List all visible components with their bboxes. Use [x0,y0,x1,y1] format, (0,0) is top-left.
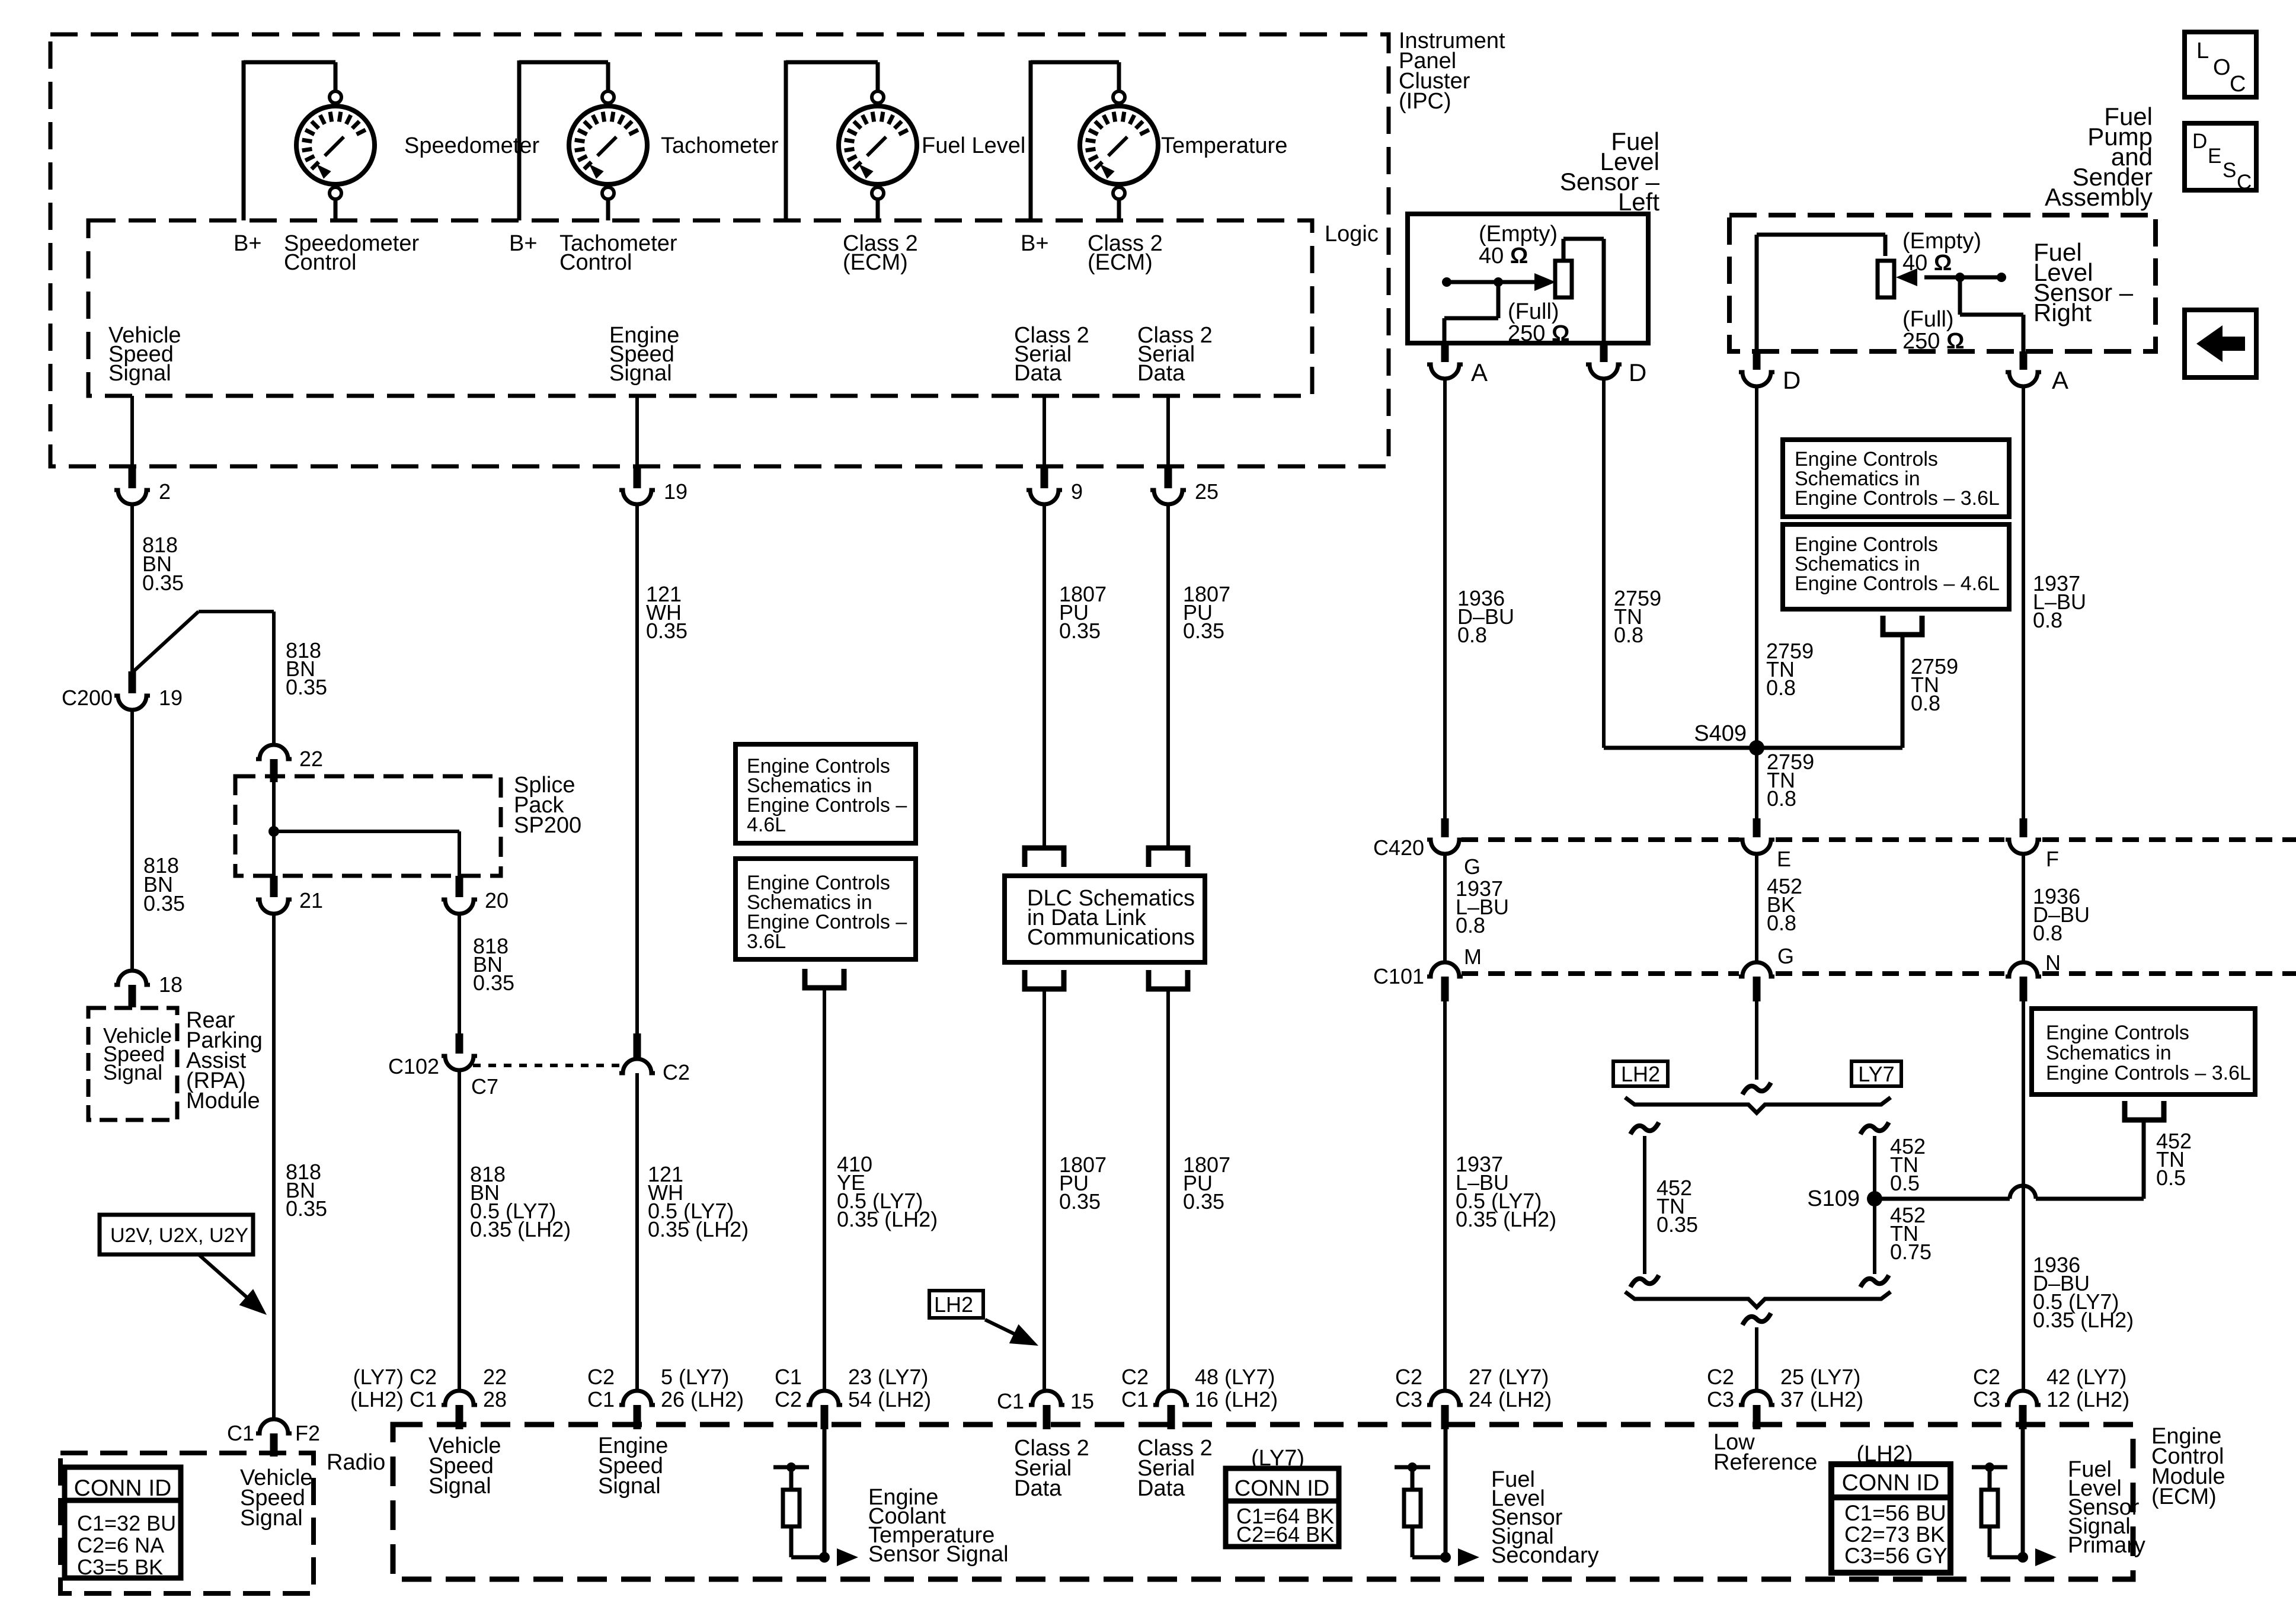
svg-text:Control: Control [284,250,357,275]
svg-text:C7: C7 [471,1074,498,1099]
svg-text:18: 18 [159,972,183,997]
svg-text:15: 15 [1070,1389,1094,1413]
svg-text:C: C [2230,72,2246,97]
svg-text:C2=73 BK: C2=73 BK [1844,1522,1945,1547]
svg-text:3.6L: 3.6L [747,930,786,953]
svg-text:40 Ω: 40 Ω [1479,244,1528,268]
svg-text:C2: C2 [663,1060,690,1084]
svg-text:0.35: 0.35 [1059,619,1101,643]
svg-text:C2=64 BK: C2=64 BK [1236,1522,1334,1547]
svg-text:0.35: 0.35 [286,675,327,699]
svg-text:D: D [2192,130,2207,153]
svg-text:24 (LH2): 24 (LH2) [1469,1387,1552,1411]
svg-text:L: L [2196,39,2209,63]
svg-text:Control: Control [559,250,632,275]
svg-text:0.35: 0.35 [1183,1189,1224,1214]
svg-text:LH2: LH2 [1621,1062,1660,1086]
svg-text:Tachometer: Tachometer [661,133,779,158]
svg-text:CONN ID: CONN ID [1235,1476,1329,1501]
svg-text:Engine Controls – 3.6L: Engine Controls – 3.6L [1795,487,2000,510]
svg-text:37 (LH2): 37 (LH2) [1780,1387,1863,1411]
svg-text:Data: Data [1137,1476,1185,1501]
svg-text:19: 19 [159,686,183,710]
svg-text:0.35: 0.35 [646,619,687,643]
svg-text:27 (LY7): 27 (LY7) [1469,1365,1549,1389]
svg-text:Communications: Communications [1027,925,1195,950]
svg-text:A: A [2052,366,2068,394]
svg-text:C2: C2 [1395,1365,1422,1389]
svg-text:0.35: 0.35 [143,891,185,916]
svg-text:25: 25 [1195,479,1219,504]
svg-text:0.8: 0.8 [1767,911,1796,935]
svg-text:C420: C420 [1373,836,1424,860]
svg-text:Right: Right [2033,299,2092,327]
svg-text:C200: C200 [62,686,113,710]
svg-text:C3=56 GY: C3=56 GY [1844,1544,1948,1568]
svg-text:Engine Controls – 3.6L: Engine Controls – 3.6L [2046,1062,2251,1084]
svg-text:(LY7) C2: (LY7) C2 [353,1365,437,1389]
svg-text:G: G [1464,854,1480,879]
svg-text:23 (LY7): 23 (LY7) [848,1365,928,1389]
svg-text:Sensor Signal: Sensor Signal [868,1542,1009,1567]
svg-text:5 (LY7): 5 (LY7) [661,1365,729,1389]
svg-text:Signal: Signal [428,1474,491,1499]
svg-text:0.35 (LH2): 0.35 (LH2) [1456,1207,1556,1231]
svg-text:G: G [1777,944,1794,968]
svg-text:C2: C2 [1707,1365,1734,1389]
svg-text:C1: C1 [227,1421,254,1445]
svg-text:C1=56 BU: C1=56 BU [1844,1501,1946,1525]
svg-text:16 (LH2): 16 (LH2) [1195,1387,1278,1411]
svg-text:D: D [1783,366,1801,394]
svg-text:2: 2 [159,479,171,504]
svg-text:Assembly: Assembly [2045,183,2153,211]
svg-text:C1: C1 [997,1389,1024,1413]
svg-text:0.5: 0.5 [1890,1171,1920,1195]
svg-text:0.8: 0.8 [2033,921,2062,945]
svg-text:0.8: 0.8 [1766,676,1796,700]
svg-text:26 (LH2): 26 (LH2) [661,1387,744,1411]
svg-text:0.5: 0.5 [2156,1166,2186,1190]
svg-text:0.35: 0.35 [1059,1189,1101,1214]
svg-text:D: D [1629,359,1646,386]
svg-text:Signal: Signal [240,1506,303,1531]
svg-text:F2: F2 [295,1421,320,1445]
svg-text:0.8: 0.8 [1456,913,1485,937]
svg-text:C1: C1 [587,1387,615,1411]
svg-text:22: 22 [299,747,323,771]
svg-text:Data: Data [1014,1476,1062,1501]
svg-text:N: N [2045,950,2061,975]
svg-text:Radio: Radio [327,1450,385,1475]
svg-text:Logic: Logic [1325,222,1379,247]
svg-text:42 (LY7): 42 (LY7) [2046,1365,2126,1389]
svg-text:25 (LY7): 25 (LY7) [1780,1365,1860,1389]
svg-text:Temperature: Temperature [1161,133,1287,158]
svg-text:0.35 (LH2): 0.35 (LH2) [648,1217,749,1241]
svg-text:(Empty): (Empty) [1479,222,1558,247]
svg-text:19: 19 [664,479,687,504]
svg-text:C3: C3 [1973,1387,2000,1411]
svg-text:C3=5 BK: C3=5 BK [77,1555,163,1579]
svg-text:C2: C2 [775,1387,802,1411]
svg-text:LY7: LY7 [1858,1062,1894,1086]
svg-text:C1: C1 [1121,1387,1149,1411]
svg-text:54 (LH2): 54 (LH2) [848,1387,931,1411]
svg-text:Left: Left [1618,188,1659,216]
svg-text:O: O [2213,55,2231,80]
svg-text:A: A [1471,359,1488,386]
svg-text:(ECM): (ECM) [2151,1484,2217,1509]
svg-text:LH2: LH2 [934,1292,973,1317]
svg-text:9: 9 [1071,479,1083,504]
svg-text:C3: C3 [1707,1387,1734,1411]
svg-text:F: F [2046,847,2059,871]
svg-text:250 Ω: 250 Ω [1508,321,1569,346]
svg-text:12 (LH2): 12 (LH2) [2046,1387,2129,1411]
svg-text:C101: C101 [1373,964,1424,988]
svg-text:Secondary: Secondary [1491,1543,1599,1568]
svg-text:CONN ID: CONN ID [1842,1470,1940,1496]
svg-text:Signal: Signal [103,1060,162,1084]
svg-text:Schematics in: Schematics in [2046,1042,2172,1064]
svg-text:(ECM): (ECM) [843,250,908,275]
svg-text:(Full): (Full) [1508,299,1559,324]
svg-text:0.35: 0.35 [1183,619,1224,643]
svg-text:Signal: Signal [598,1474,661,1499]
svg-text:SP200: SP200 [514,813,581,838]
svg-text:S109: S109 [1807,1186,1860,1211]
svg-text:0.35 (LH2): 0.35 (LH2) [470,1217,571,1241]
svg-text:0.8: 0.8 [1457,623,1487,647]
svg-text:0.35 (LH2): 0.35 (LH2) [2033,1308,2134,1332]
svg-text:0.35 (LH2): 0.35 (LH2) [837,1207,938,1231]
svg-text:4.6L: 4.6L [747,814,786,836]
svg-text:C1: C1 [775,1365,802,1389]
svg-text:C2: C2 [1121,1365,1149,1389]
svg-text:0.35: 0.35 [473,971,514,995]
svg-text:B+: B+ [509,231,538,256]
svg-text:U2V, U2X, U2Y: U2V, U2X, U2Y [110,1224,248,1247]
svg-text:(Full): (Full) [1902,307,1954,332]
svg-text:C1=32 BU: C1=32 BU [77,1511,176,1535]
svg-text:Data: Data [1137,361,1185,386]
svg-text:0.8: 0.8 [1911,691,1940,715]
svg-text:0.35: 0.35 [142,571,184,595]
svg-text:21: 21 [299,888,323,913]
svg-text:C2: C2 [587,1365,615,1389]
svg-text:Engine Controls: Engine Controls [2046,1022,2189,1044]
svg-text:0.35: 0.35 [1657,1212,1698,1237]
svg-text:B+: B+ [1021,231,1049,256]
svg-text:Reference: Reference [1713,1450,1817,1475]
svg-text:C2: C2 [1973,1365,2000,1389]
svg-text:Engine Controls – 4.6L: Engine Controls – 4.6L [1795,572,2000,595]
svg-text:C2=6 NA: C2=6 NA [77,1533,164,1557]
svg-text:0.8: 0.8 [2033,608,2062,632]
svg-text:(ECM): (ECM) [1088,250,1153,275]
svg-text:Signal: Signal [609,361,672,386]
svg-text:M: M [1464,945,1482,969]
svg-text:Fuel Level: Fuel Level [922,133,1025,158]
svg-text:S409: S409 [1694,721,1747,746]
svg-text:C: C [2237,171,2252,194]
svg-text:0.8: 0.8 [1614,623,1643,647]
svg-text:C102: C102 [388,1054,439,1078]
svg-text:48 (LY7): 48 (LY7) [1195,1365,1275,1389]
svg-text:20: 20 [485,888,509,913]
svg-text:0.8: 0.8 [1767,786,1796,811]
svg-text:(LH2) C1: (LH2) C1 [350,1387,437,1411]
svg-text:28: 28 [483,1387,507,1411]
svg-text:B+: B+ [234,231,262,256]
svg-text:E: E [2208,145,2221,168]
svg-text:(Empty): (Empty) [1902,229,1981,254]
svg-text:0.75: 0.75 [1890,1240,1932,1264]
svg-text:Data: Data [1014,361,1062,386]
svg-text:40 Ω: 40 Ω [1902,251,1952,276]
svg-text:S: S [2223,159,2236,182]
svg-text:Module: Module [186,1089,260,1113]
svg-text:E: E [1777,847,1791,871]
svg-text:Signal: Signal [108,361,171,386]
svg-text:CONN ID: CONN ID [74,1475,172,1501]
svg-text:250 Ω: 250 Ω [1902,329,1964,354]
svg-text:22: 22 [483,1365,507,1389]
svg-text:(IPC): (IPC) [1399,89,1451,114]
svg-text:Primary: Primary [2068,1533,2145,1558]
svg-text:C3: C3 [1395,1387,1422,1411]
svg-text:0.35: 0.35 [286,1196,327,1221]
